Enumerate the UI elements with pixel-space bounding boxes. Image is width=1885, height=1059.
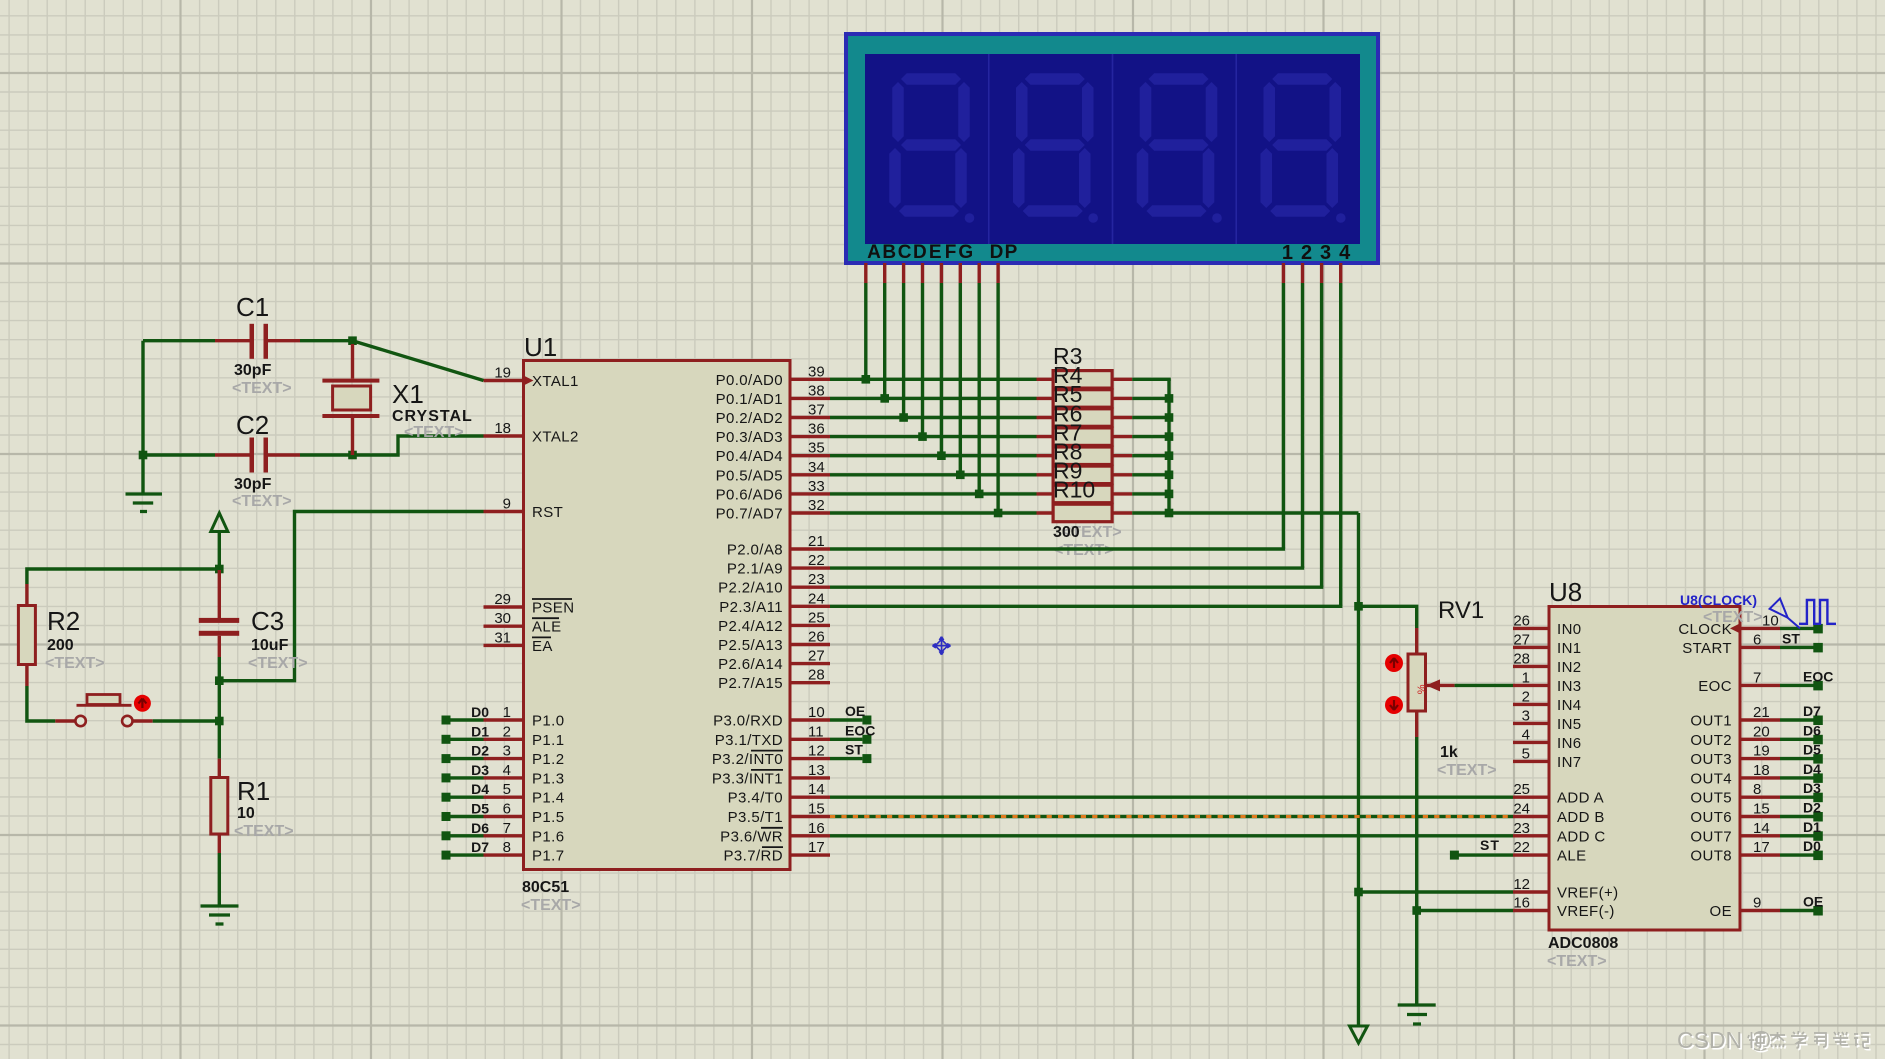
U1 pin 29 PSEN (484, 591, 575, 617)
wire node to R1 (218, 721, 221, 759)
resistor R4 (1037, 390, 1133, 408)
svg-text:P2.2/A10: P2.2/A10 (718, 580, 783, 597)
svg-text:30pF: 30pF (234, 362, 272, 379)
button left pin (55, 719, 75, 722)
wire display digit 2 to P2.1 net (1301, 283, 1304, 568)
svg-text:P2.3/A11: P2.3/A11 (719, 599, 783, 616)
svg-text:300: 300 (1053, 524, 1080, 541)
svg-text:19: 19 (494, 365, 511, 382)
svg-text:P0.5/AD5: P0.5/AD5 (716, 467, 783, 484)
svg-text:<TEXT>: <TEXT> (232, 493, 292, 510)
wire C2 to XTAL2 (353, 436, 484, 455)
svg-text:22: 22 (1513, 839, 1530, 856)
wire display segment DP to P0.7 net (996, 283, 999, 513)
svg-text:OUT1: OUT1 (1690, 713, 1732, 730)
svg-text:4: 4 (1522, 726, 1530, 743)
RV1 actuator up (1385, 654, 1403, 672)
svg-text:17: 17 (1753, 839, 1770, 856)
svg-text:P: P (1005, 242, 1018, 263)
svg-text:P3.5/T1: P3.5/T1 (728, 809, 783, 826)
display segment pins A-DP (866, 263, 1341, 283)
svg-text:P3.6/WR: P3.6/WR (720, 828, 783, 845)
svg-text:P1.4: P1.4 (532, 790, 564, 807)
7-segment 4-digit display body (846, 34, 1378, 263)
svg-text:IN4: IN4 (1557, 697, 1582, 714)
U8 pin 7 EOC (1698, 669, 1780, 695)
U1 pin 37 P0.2/AD2 (716, 402, 830, 428)
U1 pin 4 P1.3 (484, 762, 565, 788)
svg-text:X1: X1 (392, 379, 424, 409)
U8 pin 20 OUT2 (1690, 723, 1780, 749)
svg-text:22: 22 (808, 552, 825, 569)
U1 pin 30 ALE (484, 610, 562, 636)
junction (1165, 509, 1174, 518)
wire display segment G to P0.6 net (978, 283, 981, 494)
terminal D4 at U8 (1780, 761, 1823, 783)
display pin labels 1234 (1282, 242, 1351, 264)
svg-text:OUT7: OUT7 (1690, 828, 1732, 845)
svg-text:U1: U1 (524, 332, 557, 362)
U8 pin 23 ADD C (1513, 820, 1606, 846)
resistor R1 (211, 759, 228, 853)
svg-text:ALE: ALE (532, 619, 562, 636)
svg-text:B: B (882, 242, 896, 263)
wire bus down right side (1357, 513, 1360, 1026)
svg-text:P0.6/AD6: P0.6/AD6 (716, 486, 783, 503)
svg-text:23: 23 (808, 571, 825, 588)
IC U8 ADC0808 body (1549, 607, 1740, 931)
svg-text:D1: D1 (1803, 819, 1821, 835)
svg-text:28: 28 (808, 667, 825, 684)
display digit 2 segments (1013, 73, 1098, 223)
wire U1 P2.2 to display digit 3 (830, 586, 1323, 589)
svg-text:15: 15 (1753, 801, 1770, 818)
wire VCC node to R2 top (27, 569, 219, 584)
svg-text:OUT8: OUT8 (1690, 848, 1732, 865)
svg-text:D5: D5 (471, 801, 489, 817)
svg-text:6: 6 (503, 801, 511, 818)
wire VREF+ to bus (1359, 890, 1514, 893)
U1 pin 32 P0.7/AD7 (716, 497, 830, 523)
svg-text:OUT5: OUT5 (1690, 790, 1732, 807)
svg-text:XTAL1: XTAL1 (532, 373, 579, 390)
svg-text:VREF(+): VREF(+) (1557, 885, 1619, 902)
wire U1 P0.5 to resistor R8 (830, 473, 1037, 476)
svg-text:2: 2 (503, 723, 511, 740)
svg-text:G: G (958, 242, 973, 263)
display digit separator (1112, 54, 1114, 244)
svg-text:D7: D7 (1803, 703, 1821, 719)
U8 pin 18 OUT4 (1690, 762, 1780, 788)
U1 XTAL1 clock arrow (524, 376, 534, 386)
U1 pin 23 P2.2/A10 (718, 571, 830, 597)
svg-text:IN5: IN5 (1557, 716, 1582, 733)
svg-text:27: 27 (1513, 631, 1530, 648)
svg-text:OE: OE (1710, 903, 1732, 920)
terminal D4 at U1 P1.4 (442, 781, 490, 802)
ground below R1 (201, 906, 239, 924)
svg-text:8: 8 (1753, 781, 1761, 798)
svg-text:R10: R10 (1053, 477, 1095, 503)
U8 pin 21 OUT1 (1690, 704, 1780, 730)
svg-text:P1.0: P1.0 (532, 713, 564, 730)
terminal D0 at U1 P1.0 (442, 704, 490, 725)
svg-text:D5: D5 (1803, 742, 1821, 758)
svg-text:D2: D2 (1803, 800, 1821, 816)
U1 pin 2 P1.1 (484, 723, 565, 749)
svg-text:P3.1/TXD: P3.1/TXD (715, 732, 783, 749)
U8 CLOCK arrow (1730, 623, 1740, 633)
capacitor C2 (143, 438, 353, 473)
wire R1 to ground (218, 853, 221, 906)
svg-text:E: E (929, 242, 942, 263)
svg-text:PSEN: PSEN (532, 600, 574, 617)
svg-text:P0.1/AD1: P0.1/AD1 (716, 391, 783, 408)
watermark CSDN (1677, 1027, 1871, 1055)
svg-text:80C51: 80C51 (522, 879, 569, 896)
svg-text:<TEXT>: <TEXT> (234, 823, 294, 840)
svg-text:P0.2/AD2: P0.2/AD2 (716, 410, 783, 427)
svg-text:37: 37 (808, 402, 825, 419)
wire U1 P3.4/T0 to U8 ADD A (830, 796, 1513, 799)
U1 pin 21 P2.0/A8 (727, 533, 830, 559)
svg-text:10: 10 (237, 805, 255, 822)
svg-text:200: 200 (47, 637, 74, 654)
svg-text:P1.5: P1.5 (532, 809, 564, 826)
svg-text:<TEXT>: <TEXT> (521, 897, 581, 914)
svg-text:IN0: IN0 (1557, 621, 1582, 638)
svg-text:<TEXT>: <TEXT> (404, 424, 464, 441)
ground top-left (126, 494, 163, 512)
svg-text:3: 3 (503, 743, 511, 760)
svg-text:33: 33 (808, 478, 825, 495)
U1 pin 25 P2.4/A12 (718, 609, 830, 635)
junction bus VREF+ (1354, 888, 1363, 897)
U1 pin 3 P1.2 (484, 743, 565, 769)
U8 pin 19 OUT3 (1690, 743, 1780, 769)
U8 pin 22 ALE (1513, 839, 1587, 865)
clock generator U8(CLOCK) (1680, 592, 1836, 628)
U1 pin 5 P1.4 (484, 781, 565, 807)
svg-text:P1.7: P1.7 (532, 848, 564, 865)
svg-text:1k: 1k (1440, 744, 1458, 761)
svg-text:OUT3: OUT3 (1690, 751, 1732, 768)
wire U1 P2.0 to display digit 1 (830, 547, 1285, 550)
wire U1 P0.6 to resistor R9 (830, 492, 1037, 495)
svg-text:ADD C: ADD C (1557, 828, 1606, 845)
potentiometer RV1 (1408, 628, 1455, 737)
svg-text:ST: ST (1480, 837, 1500, 853)
wire C3 to button node (218, 681, 221, 721)
U1 pin 8 P1.7 (484, 839, 565, 865)
wire VREF- to RV1 bottom line (1417, 909, 1513, 912)
terminal D3 at U8 (1780, 780, 1823, 802)
U1 pin 28 P2.7/A15 (718, 667, 830, 693)
U8 pin 25 ADD A (1513, 781, 1604, 807)
U1 pin 7 P1.6 (484, 820, 565, 846)
svg-text:8: 8 (503, 839, 511, 856)
svg-text:D1: D1 (471, 723, 489, 739)
svg-text:21: 21 (808, 533, 825, 550)
svg-text:30: 30 (494, 610, 511, 627)
wire display segment A to P0.0 net (864, 283, 867, 379)
svg-text:U8: U8 (1549, 577, 1582, 607)
svg-text:12: 12 (1513, 876, 1530, 893)
IC U1 80C51 body (524, 361, 791, 870)
U1 pin 34 P0.5/AD5 (716, 459, 830, 485)
wire C1 left vertical (141, 341, 144, 494)
svg-text:CRYSTAL: CRYSTAL (392, 408, 473, 425)
svg-text:RV1: RV1 (1438, 597, 1484, 624)
wire C1 to XTAL1 (diagonal) (353, 341, 484, 381)
U8 pin 9 OE (1710, 895, 1780, 921)
svg-text:P3.7/RD: P3.7/RD (724, 848, 784, 865)
wire U1 P2.1 to display digit 2 (830, 566, 1304, 569)
wire U1 P2.3 to display digit 4 (830, 605, 1342, 608)
svg-text:P3.2/INT0: P3.2/INT0 (712, 751, 783, 768)
svg-text:4: 4 (503, 762, 511, 779)
U8 pin 12 VREF(+) (1513, 876, 1619, 902)
svg-text:P3.0/RXD: P3.0/RXD (713, 713, 783, 730)
svg-text:P3.4/T0: P3.4/T0 (728, 790, 783, 807)
U8 pin 1 IN3 (1513, 669, 1582, 695)
svg-text:P2.4/A12: P2.4/A12 (718, 618, 783, 635)
U8 pin 10 CLOCK (1678, 612, 1780, 638)
terminal D7 at U8 (1780, 703, 1823, 725)
display pin labels ABCDEFG DP (867, 242, 1018, 263)
U1 pin 38 P0.1/AD1 (716, 382, 830, 408)
svg-text:P2.6/A14: P2.6/A14 (718, 656, 783, 673)
svg-text:5: 5 (1522, 745, 1530, 762)
svg-text:P2.5/A13: P2.5/A13 (718, 637, 783, 654)
display digit separator (988, 54, 990, 244)
wire RST to RC network (219, 512, 483, 681)
U1 pin 18 XTAL2 (484, 420, 579, 446)
svg-text:<TEXT>: <TEXT> (1437, 762, 1497, 779)
terminal OE at U8 (1780, 894, 1823, 916)
svg-text:32: 32 (808, 497, 825, 514)
svg-text:2: 2 (1522, 688, 1530, 705)
U8 pin 27 IN1 (1513, 631, 1582, 657)
wire U1 P0.2 to resistor R5 (830, 416, 1037, 419)
svg-text:RST: RST (532, 504, 563, 521)
svg-text:1: 1 (1282, 242, 1293, 264)
terminal OE at U1 P3.0 (830, 703, 871, 725)
svg-text:%: % (1416, 684, 1428, 694)
wire display digit 4 to P2.3 net (1339, 283, 1342, 606)
svg-text:14: 14 (1753, 820, 1770, 837)
U1 pin 15 P3.5/T1 (728, 801, 830, 827)
svg-text:IN2: IN2 (1557, 659, 1582, 676)
svg-text:<TEXT>: <TEXT> (232, 380, 292, 397)
svg-text:D: D (990, 242, 1004, 263)
junction (1165, 490, 1174, 499)
svg-text:P2.1/A9: P2.1/A9 (727, 561, 783, 578)
svg-text:D6: D6 (1803, 722, 1821, 738)
svg-text:OUT2: OUT2 (1690, 732, 1732, 749)
svg-text:D0: D0 (1803, 838, 1821, 854)
svg-text:25: 25 (1513, 781, 1530, 798)
svg-text:16: 16 (808, 820, 825, 837)
wire bus bottom to right (1169, 511, 1359, 514)
junction (1165, 413, 1174, 422)
wire display digit 3 to P2.2 net (1320, 283, 1323, 587)
junction C3 bottom RST (215, 676, 224, 685)
U1 pin 35 P0.4/AD4 (716, 440, 830, 466)
button actuator (134, 695, 151, 712)
resistor R3 (1037, 371, 1133, 389)
svg-text:D: D (913, 242, 927, 263)
terminal D1 at U1 P1.1 (442, 723, 490, 744)
svg-text:F: F (945, 242, 957, 263)
svg-text:7: 7 (1753, 669, 1761, 686)
junction RV1 VREF- (1412, 906, 1421, 915)
svg-text:P1.1: P1.1 (532, 732, 564, 749)
svg-text:P0.4/AD4: P0.4/AD4 (716, 448, 783, 465)
svg-text:EOC: EOC (845, 722, 875, 738)
svg-text:9: 9 (503, 496, 511, 513)
wire U1 P0.3 to resistor R6 (830, 435, 1037, 438)
terminal D2 at U8 (1780, 800, 1823, 822)
svg-text:EOC: EOC (1698, 678, 1732, 695)
svg-text:IN7: IN7 (1557, 754, 1582, 771)
resistor R2 (18, 584, 35, 686)
U1 pin 27 P2.6/A14 (718, 648, 830, 674)
svg-text:R2: R2 (47, 606, 80, 636)
svg-text:12: 12 (808, 743, 825, 760)
U1 pin 31 EA (484, 629, 553, 655)
svg-text:EA: EA (532, 638, 553, 655)
U8 pin 16 VREF(-) (1513, 895, 1615, 921)
terminal D6 at U1 P1.6 (442, 820, 490, 841)
U1 pin 14 P3.4/T0 (728, 781, 830, 807)
svg-text:C2: C2 (236, 410, 269, 440)
svg-text:P0.0/AD0: P0.0/AD0 (716, 372, 783, 389)
wire display digit 1 to P2.0 net (1282, 283, 1285, 549)
svg-text:D4: D4 (1803, 761, 1821, 777)
svg-text:D4: D4 (471, 781, 489, 797)
svg-text:23: 23 (1513, 820, 1530, 837)
RV1 actuator down (1385, 696, 1403, 714)
push button (75, 695, 132, 727)
wire RV1 wiper to U8 IN3 (1455, 684, 1513, 687)
svg-text:D0: D0 (471, 704, 489, 720)
wire U8 CLOCK terminal (1780, 624, 1823, 634)
wire RV1 bottom down (1415, 737, 1418, 1005)
U8 pin 26 IN0 (1513, 612, 1582, 638)
wire button to C3/R1 node (153, 719, 220, 722)
wire display segment E to P0.4 net (940, 283, 943, 456)
svg-text:OE: OE (1803, 894, 1823, 910)
svg-text:<TEXT>: <TEXT> (1547, 953, 1607, 970)
svg-text:10: 10 (1762, 612, 1779, 629)
svg-text:IN1: IN1 (1557, 640, 1582, 657)
U1 pin 16 P3.6/WR (720, 820, 830, 846)
svg-text:EOC: EOC (1803, 668, 1833, 684)
svg-text:34: 34 (808, 459, 825, 476)
svg-text:A: A (867, 242, 881, 263)
svg-text:IN3: IN3 (1557, 678, 1582, 695)
terminal EOC at U1 P3.1 (830, 722, 875, 744)
wire U1 P0.1 to resistor R4 (830, 397, 1037, 400)
resistor R10 (1037, 504, 1133, 522)
svg-text:<TEXT>: <TEXT> (248, 655, 308, 672)
svg-text:C3: C3 (251, 606, 284, 636)
svg-text:ADD B: ADD B (1557, 809, 1605, 826)
power VCC arrow (211, 513, 228, 569)
U1 pin 11 P3.1/TXD (715, 723, 830, 749)
wire U1 P0.7 to resistor R10 (830, 511, 1037, 514)
wire U1 P3.5/T1 to U8 ADD B (dashed orange) (830, 815, 1513, 818)
svg-text:15: 15 (808, 801, 825, 818)
svg-text:24: 24 (1513, 801, 1530, 818)
svg-text:39: 39 (808, 363, 825, 380)
terminal D0 at U8 (1780, 838, 1823, 860)
U8 pin 17 OUT8 (1690, 839, 1780, 865)
svg-text:35: 35 (808, 440, 825, 457)
svg-text:30pF: 30pF (234, 476, 272, 493)
junction (1165, 471, 1174, 480)
U1 pin 17 P3.7/RD (724, 839, 831, 865)
svg-text:5: 5 (503, 781, 511, 798)
U8 pin 3 IN5 (1513, 707, 1582, 733)
svg-text:19: 19 (1753, 743, 1770, 760)
svg-text:26: 26 (808, 629, 825, 646)
ground below RV1 (1398, 1005, 1436, 1024)
wire U1 P3.6/WR to U8 ADD C (830, 834, 1513, 837)
svg-text:<TEXT>: <TEXT> (45, 655, 105, 672)
U8 pin 28 IN2 (1513, 650, 1582, 676)
svg-text:11: 11 (808, 723, 824, 740)
svg-text:36: 36 (808, 421, 825, 438)
svg-text:4: 4 (1339, 242, 1351, 264)
svg-text:C1: C1 (236, 292, 269, 322)
svg-text:<TEXT>: <TEXT> (1703, 609, 1763, 626)
U8 pin 14 OUT7 (1690, 820, 1780, 846)
U1 pin 26 P2.5/A13 (718, 629, 830, 655)
wire U1 P0.4 to resistor R7 (830, 454, 1037, 457)
terminal D3 at U1 P1.3 (442, 762, 490, 783)
display digit 1 segments (889, 73, 974, 223)
U1 pin 1 P1.0 (484, 704, 565, 730)
U8 pin 15 OUT6 (1690, 801, 1780, 827)
terminal ST at U8 (1780, 630, 1823, 652)
svg-text:10: 10 (808, 704, 825, 721)
svg-text:ALE: ALE (1557, 848, 1587, 865)
svg-text:P0.7/AD7: P0.7/AD7 (716, 506, 783, 523)
capacitor C1 (143, 324, 353, 359)
terminal D7 at U1 P1.7 (442, 839, 490, 860)
svg-text:18: 18 (494, 420, 511, 437)
svg-text:6: 6 (1753, 631, 1761, 648)
U1 pin 12 P3.2/INT0 (712, 743, 830, 769)
U1 pin 24 P2.3/A11 (719, 590, 830, 616)
svg-text:R1: R1 (237, 776, 270, 806)
origin marker (933, 637, 951, 655)
svg-text:C: C (898, 242, 912, 263)
svg-text:31: 31 (494, 629, 511, 646)
terminal ST at U1 P3.2 (830, 742, 871, 764)
resistor R6 (1037, 428, 1133, 446)
capacitor C3 (199, 570, 239, 681)
display digit separator (1235, 54, 1237, 244)
wire display segment C to P0.2 net (902, 283, 905, 418)
svg-text:38: 38 (808, 382, 825, 399)
U8 pin 4 IN6 (1513, 726, 1582, 752)
arrow bus bottom (1350, 1026, 1368, 1043)
U8 pin 5 IN7 (1513, 745, 1582, 771)
svg-text:D7: D7 (471, 839, 489, 855)
